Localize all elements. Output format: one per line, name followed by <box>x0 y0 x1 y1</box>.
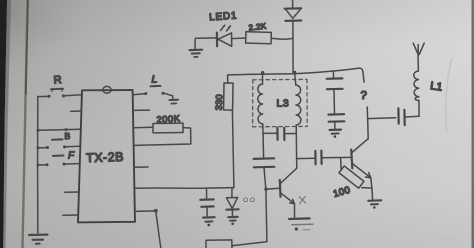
wire: left line down to bottom <box>264 188 267 242</box>
capacitor C6 (to antenna circuit) <box>368 108 419 125</box>
capacitor C3 (series in left line, vertical) <box>254 133 275 189</box>
ground GND7 (Q2 emitter) <box>368 189 381 209</box>
wire: IC bottom-right pin down <box>135 209 161 248</box>
pushbutton F <box>37 156 79 167</box>
wire: ground to LED <box>195 38 216 40</box>
node dot (rail / L3 left) <box>261 71 264 74</box>
diode D2 (at x232, to ground) <box>226 188 238 216</box>
IC pin stub left (pin y215) <box>63 214 78 216</box>
left black border bar <box>0 0 7 248</box>
pushbutton B <box>37 139 80 149</box>
antenna ANT1 <box>413 43 424 71</box>
pushbutton L wiring <box>133 86 173 96</box>
svg-text:F: F <box>68 151 75 162</box>
wire: LED to R2.2K <box>232 37 246 40</box>
right black edge line <box>472 0 474 248</box>
capacitor C2 (between windings, horizontal) <box>263 128 296 140</box>
IC pin stub left (pin y192) <box>65 191 80 193</box>
x mark (crossed-out) <box>299 196 306 203</box>
svg-text:LED1: LED1 <box>209 10 238 23</box>
inductor L3b (right winding) <box>295 72 301 168</box>
ground GND5 (LED branch) <box>190 40 203 57</box>
component box X1 (bottom, cut off) <box>206 240 232 248</box>
LED LED1 <box>217 25 232 46</box>
svg-text:L1: L1 <box>429 80 443 94</box>
resistor R330 body <box>224 83 233 110</box>
IC U1 TX-2B body <box>78 90 135 222</box>
svg-text:O O: O O <box>243 197 255 204</box>
wire: R330 bottom down to node (y188) <box>232 110 234 188</box>
faint paper crease right <box>446 58 452 132</box>
svg-text:B: B <box>65 131 71 141</box>
svg-text:200K: 200K <box>156 113 181 124</box>
ground GND4 (below D2) <box>228 217 237 225</box>
wire: X1 to L3-left line <box>232 242 267 246</box>
resistor R2.2K body <box>246 32 272 44</box>
node dot (rail / diode line) <box>293 71 296 74</box>
svg-text:R: R <box>53 74 62 87</box>
IC pin stub left (pin y111) <box>71 110 82 112</box>
resistor R200K body <box>153 123 183 133</box>
diode D1 (top, series in supply line) <box>285 0 302 74</box>
ground GND3 (below C5) <box>203 217 215 226</box>
svg-text:2.2K: 2.2K <box>248 21 267 32</box>
svg-text:L: L <box>152 74 158 86</box>
wire: top supply rail <box>228 68 364 82</box>
ground GND1 (bottom-left) <box>29 235 47 244</box>
inductor L3a (left winding) <box>258 73 263 134</box>
capacitor C5 (at x207, to ground) <box>200 188 213 216</box>
capacitor C1 (rail to ground, stacked pair) <box>327 72 345 130</box>
wire: Q2 collector riser <box>367 107 368 139</box>
inductor L1 <box>414 71 419 116</box>
wire: IC output long wire (y188) <box>135 187 234 190</box>
wire: R330 top to rail <box>227 75 229 83</box>
svg-text:?: ? <box>360 90 367 102</box>
capacitor C4 (coupling Q1->Q2) <box>297 151 351 165</box>
pushbutton R <box>38 89 81 98</box>
wire: row2 to IC pin <box>36 128 79 132</box>
wire from R200K to lower pin <box>134 128 191 146</box>
transformer L3 dashed box <box>253 79 308 126</box>
transistor Q1 <box>266 168 297 217</box>
IC pin stub right (pin y167) <box>134 166 148 168</box>
ground GND2 (at L button) <box>170 96 179 104</box>
ground GND8 (below C1) <box>330 130 341 138</box>
wire: R2.2K to supply line <box>271 37 293 40</box>
resistor R200K wiring <box>133 126 153 129</box>
ground GND6 (Q1 emitter) <box>289 218 313 230</box>
wire: left rail vertical <box>37 96 39 233</box>
svg-text:L3: L3 <box>277 98 290 110</box>
svg-text:330: 330 <box>214 94 225 111</box>
transistor Q2 <box>351 139 372 189</box>
IC U1 notch <box>103 86 111 93</box>
svg-text:TX-2B: TX-2B <box>86 150 124 165</box>
IC pin stub right (pin y110) <box>133 109 150 111</box>
paper page edge (vertical crease line at left) <box>23 0 28 248</box>
resistor R100 body (tilted) <box>339 158 372 188</box>
